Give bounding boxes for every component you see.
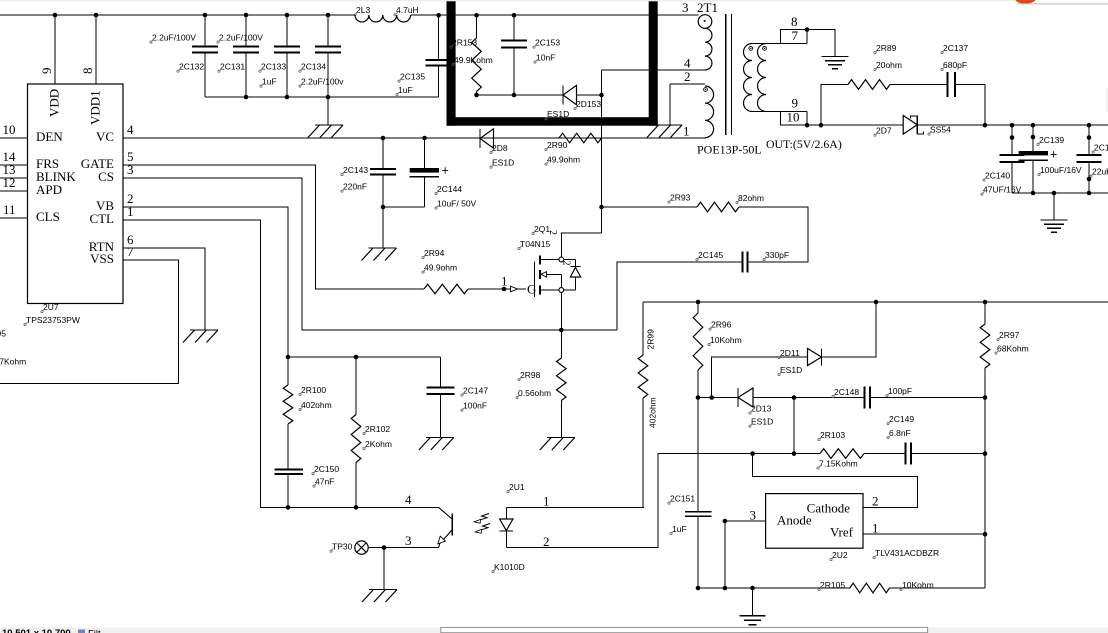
svg-text:2R90: 2R90 (547, 140, 568, 150)
svg-text:20ohm: 20ohm (876, 60, 902, 70)
wire U7 pin 8 VDD1 (95, 15, 97, 84)
svg-text:ES1D: ES1D (780, 365, 802, 375)
svg-text:220nF: 220nF (343, 181, 367, 191)
IC U7 TPS23753PW body (28, 84, 124, 304)
resistor 2R103 7.15Kohm (820, 449, 864, 459)
svg-text:11: 11 (3, 202, 16, 217)
svg-text:10: 10 (787, 110, 800, 125)
optocoupler 2U1 K1010D phototransistor (451, 514, 453, 536)
svg-text:2R100: 2R100 (301, 385, 326, 395)
capacitor 2C135 1uF (438, 15, 440, 60)
svg-text:680pF: 680pF (943, 60, 967, 70)
wire VSS net (0, 260, 179, 384)
transformer 2T1 primary top winding (698, 15, 712, 29)
transformer 2T1 secondary winding B (763, 47, 767, 51)
wire output rail (807, 124, 904, 126)
svg-text:1: 1 (683, 123, 690, 138)
svg-text:2C134: 2C134 (301, 61, 326, 71)
svg-text:1: 1 (872, 521, 879, 536)
wire top VDD rail (0, 14, 355, 16)
wire 2U2 cathode pin 2 (753, 454, 918, 508)
toolbar edge line (1017, 3, 1108, 4)
svg-text:47Kohm: 47Kohm (0, 357, 26, 367)
wire opto pin1 to 2R99 (506, 506, 644, 508)
diode 2D7 SS54 schottky (916, 116, 918, 135)
svg-text:2C147: 2C147 (463, 385, 488, 395)
junction dots CTL rail (286, 505, 291, 510)
svg-text:1uF: 1uF (262, 76, 277, 86)
transformer 2T1 secondary winding A (749, 47, 753, 51)
svg-text:9: 9 (39, 68, 54, 75)
wire U7 pin 9 VDD (54, 15, 56, 84)
svg-text:Vref: Vref (830, 525, 854, 540)
svg-text:2.2uF/100v: 2.2uF/100v (301, 76, 344, 86)
light arrows 2U1 (476, 514, 489, 522)
svg-text:10uF/ 50V: 10uF/ 50V (437, 198, 477, 208)
wire VC / primary return (123, 137, 706, 139)
svg-text:TPS23753PW: TPS23753PW (26, 315, 80, 325)
transistor 2Q1 T04N15 MOSFET (534, 262, 536, 298)
wire 2D11 loop (698, 397, 712, 399)
svg-text:8: 8 (791, 14, 798, 29)
wire transformer pin 4 (602, 69, 706, 71)
svg-text:2L3: 2L3 (356, 5, 370, 15)
svg-text:2C149: 2C149 (889, 414, 914, 424)
wire to secondary ground (807, 30, 835, 57)
resistor 2R153 49.9Kohm (476, 15, 478, 38)
diode 2D13 ES1D (737, 388, 739, 407)
svg-text:POE13P-50L: POE13P-50L (697, 143, 762, 157)
svg-text:10Kohm: 10Kohm (710, 335, 742, 345)
svg-text:2R98: 2R98 (520, 370, 541, 380)
firefox logo bottom blob (1016, 0, 1036, 4)
svg-text:2C148: 2C148 (834, 387, 859, 397)
svg-text:10: 10 (3, 122, 16, 137)
bold highlight box (447, 0, 456, 126)
junction dot 2C148 left (792, 395, 797, 400)
svg-text:10nF: 10nF (536, 52, 555, 62)
svg-text:2R96: 2R96 (711, 319, 732, 329)
svg-text:1uF: 1uF (398, 85, 413, 95)
capacitor 2C133 1uF (286, 15, 288, 47)
svg-text:1: 1 (501, 274, 508, 289)
transformer 2T1 primary bottom winding (704, 88, 708, 92)
inductor 2L3 4.7uH (355, 15, 411, 22)
wire 2R93 to drain node (602, 206, 698, 208)
capacitor 2C143 220nF (382, 138, 384, 169)
wire secondary pins 8 7 (752, 43, 807, 45)
svg-text:100uF/16V: 100uF/16V (1040, 165, 1082, 175)
wire 2D11 to rail (822, 302, 877, 357)
junction dot diode output (983, 123, 988, 128)
browser top edge remnant (0, 0, 1016, 1)
capacitor 2C137 680pF (890, 84, 948, 86)
wire U7 pin 14 FRS (0, 164, 28, 166)
junction dot gate (502, 287, 507, 292)
capacitor 2C150 47nF (275, 468, 304, 470)
svg-text:2C151: 2C151 (670, 493, 695, 503)
svg-text:Cathode: Cathode (807, 501, 851, 516)
svg-text:VDD1: VDD1 (88, 90, 103, 125)
svg-text:402ohm: 402ohm (648, 397, 658, 428)
svg-text:49.9ohm: 49.9ohm (424, 262, 457, 272)
svg-text:68Kohm: 68Kohm (997, 343, 1029, 353)
wire snubber bottom (477, 94, 564, 96)
junction dot vref (983, 532, 988, 537)
capacitor 2C131 2.2uF/100V (245, 15, 247, 47)
wire VB net (123, 207, 440, 357)
wire output cap bottom rail (1012, 192, 1108, 194)
svg-text:7: 7 (127, 244, 134, 259)
svg-text:3: 3 (682, 0, 689, 15)
svg-text:VC: VC (96, 129, 114, 144)
svg-text:VSS: VSS (90, 251, 114, 266)
svg-text:2C141: 2C141 (1094, 142, 1108, 152)
wire feedback rail (643, 301, 1108, 303)
svg-text:402ohm: 402ohm (301, 400, 332, 410)
IC 2U2 TLV431ACDBZR body (766, 494, 863, 549)
svg-text:2D11: 2D11 (780, 348, 800, 358)
svg-text:9: 9 (792, 96, 799, 111)
resistor 2R99 402ohm vertical (642, 302, 644, 355)
wire opto emitter (384, 547, 439, 549)
svg-text:2: 2 (872, 494, 879, 509)
svg-text:12: 12 (3, 175, 16, 190)
chassis ground TP30 (369, 589, 397, 591)
junction dots 2C141 (1087, 123, 1092, 128)
junction dots output rail left (805, 123, 810, 128)
wire 2R103 net (658, 453, 820, 455)
capacitor 2C139 100uF/16V electrolytic (1032, 125, 1034, 151)
earth ground bottom (740, 615, 766, 617)
svg-text:2R89: 2R89 (876, 43, 897, 53)
junction dot pin 8 (805, 27, 810, 32)
svg-text:ES1D: ES1D (751, 416, 773, 426)
svg-text:2R105: 2R105 (820, 580, 845, 590)
junction dots bottom rail (696, 586, 701, 591)
svg-text:2R99: 2R99 (646, 329, 656, 350)
svg-text:2D13: 2D13 (751, 403, 772, 413)
wire input cap bottom rail (205, 96, 439, 98)
svg-text:2C135: 2C135 (400, 71, 425, 81)
svg-text:6.8nF: 6.8nF (889, 428, 911, 438)
capacitor 2C141 22uF/16V (1088, 125, 1090, 155)
wire 2C137 to rail (984, 85, 986, 126)
wire stub output ground (1053, 193, 1055, 220)
svg-text:CS: CS (98, 169, 114, 184)
svg-text:2C153: 2C153 (535, 37, 560, 47)
svg-text:3: 3 (127, 162, 134, 177)
svg-text:2.2uF/100V: 2.2uF/100V (219, 32, 263, 42)
svg-text:2: 2 (547, 230, 558, 235)
svg-text:3: 3 (405, 533, 412, 548)
chassis ground VC caps (369, 247, 397, 249)
junction dot 2C149 right (983, 451, 988, 456)
svg-text:Filt: Filt (88, 629, 101, 633)
earth ground output (1041, 219, 1068, 221)
wire 2C145 to 2R93 (739, 207, 808, 262)
svg-text:95: 95 (0, 329, 6, 339)
svg-text:1uF: 1uF (672, 524, 687, 534)
junction dot 2C148 right (983, 395, 988, 400)
svg-text:2: 2 (543, 534, 550, 549)
svg-text:APD: APD (36, 182, 62, 197)
resistor 2R97 68Kohm (984, 302, 986, 324)
junction dots 2C140 (1010, 123, 1015, 128)
chassis ground RTN (190, 329, 218, 331)
capacitor 2C145 330pF (741, 261, 743, 263)
junction dots snubber (474, 93, 479, 98)
svg-text:7: 7 (792, 28, 799, 43)
junction dots 2R103 net (750, 451, 755, 456)
wire RTN net (123, 248, 205, 330)
svg-text:SS54: SS54 (930, 124, 951, 134)
right edge scrollbar sliver (1106, 88, 1108, 112)
svg-text:2C131: 2C131 (220, 61, 245, 71)
wire U7 pin 12 APD (0, 190, 28, 192)
svg-text:OUT:(5V/2.6A): OUT:(5V/2.6A) (766, 137, 842, 151)
wire opto pin2 to lower net (506, 454, 820, 548)
svg-text:K1010D: K1010D (494, 562, 525, 572)
svg-text:2R97: 2R97 (999, 330, 1020, 340)
svg-text:2R153: 2R153 (452, 37, 477, 47)
svg-text:+: + (442, 164, 449, 178)
capacitor 2C147 100nF (439, 357, 441, 388)
resistor 2R93 82ohm (697, 202, 739, 212)
capacitor 2C151 1uF (697, 398, 699, 512)
svg-text:2C140: 2C140 (985, 170, 1010, 180)
wire 2D13 wires (712, 397, 738, 399)
capacitor 2C148 100pF (794, 397, 865, 399)
svg-text:2T1: 2T1 (697, 0, 718, 15)
resistor 2R100 402ohm (287, 357, 289, 385)
svg-text:2: 2 (684, 69, 691, 84)
wire stub to chassis ground (327, 97, 329, 125)
svg-text:CLS: CLS (36, 209, 60, 224)
wire 2D13 to 2R103 net (793, 398, 795, 454)
svg-text:VDD: VDD (47, 89, 62, 117)
svg-text:2C145: 2C145 (698, 250, 723, 260)
capacitor 2C132 2.2uF/100V (204, 15, 206, 47)
wire aux vertical node (601, 70, 603, 233)
diode 2D8 ES1D (479, 129, 481, 148)
junction dots VB divider top (286, 355, 291, 360)
wire secondary pins 9 10 (752, 111, 807, 113)
svg-text:49.9ohm: 49.9ohm (547, 154, 580, 164)
svg-text:49.9Kohm: 49.9Kohm (454, 55, 493, 65)
svg-text:2: 2 (561, 261, 572, 266)
wire source down (560, 292, 562, 330)
resistor 2R90 49.9ohm (559, 133, 601, 143)
resistor 2R94 49.9ohm (424, 284, 468, 294)
svg-text:ES1D: ES1D (492, 157, 514, 167)
capacitor 2C149 6.8nF (864, 453, 906, 455)
junction dots 2R96 bottom (696, 395, 701, 400)
svg-text:8: 8 (80, 68, 95, 75)
chassis ground 2R98 (547, 437, 575, 439)
svg-text:2C139: 2C139 (1039, 135, 1064, 145)
svg-text:100pF: 100pF (888, 386, 912, 396)
diode 2D153 ES1D (562, 85, 564, 104)
wire U7 pin 10 DEN (0, 137, 28, 139)
svg-text:2D8: 2D8 (492, 143, 508, 153)
earth ground secondary top (822, 56, 849, 58)
svg-text:4: 4 (127, 122, 134, 137)
svg-text:10.501 x 10.700: 10.501 x 10.700 (2, 628, 71, 633)
svg-text:T04N15: T04N15 (520, 239, 551, 249)
chassis ground 2C147 (426, 437, 454, 439)
svg-text:3: 3 (750, 508, 757, 523)
chassis ground primary pin2 (654, 124, 682, 126)
svg-text:2C132: 2C132 (179, 61, 204, 71)
junction dot drain node (599, 205, 604, 210)
resistor 2R102 2Kohm (355, 357, 357, 415)
optocoupler 2U1 LED (505, 507, 507, 519)
svg-text:7.15Kohm: 7.15Kohm (819, 458, 858, 468)
svg-text:4: 4 (405, 492, 412, 507)
svg-text:100nF: 100nF (463, 400, 487, 410)
svg-text:2R102: 2R102 (365, 424, 390, 434)
junction dots output bottom rail (1031, 191, 1036, 196)
capacitor 2C153 10nF (513, 15, 515, 40)
pin circles 2Q1 (559, 257, 564, 262)
svg-text:ES1D: ES1D (547, 109, 569, 119)
svg-text:2C143: 2C143 (343, 165, 368, 175)
wire U7 pin 13 BLINK (0, 177, 28, 179)
svg-text:2R94: 2R94 (424, 248, 445, 258)
wire 2U2 anode pin 3 (725, 520, 766, 522)
svg-text:DEN: DEN (36, 129, 63, 144)
junction dot TP30 (382, 545, 387, 550)
body diode 2Q1 (564, 259, 576, 261)
transformer 2T1 core (725, 14, 727, 135)
svg-text:CTL: CTL (89, 211, 114, 226)
wire TP30 ground (383, 548, 385, 590)
svg-text:0.56ohm: 0.56ohm (518, 388, 551, 398)
wire transformer pin 2 (670, 83, 705, 85)
input arrow gate (511, 286, 518, 292)
svg-text:2C144: 2C144 (437, 184, 462, 194)
wire GATE net (123, 165, 424, 289)
wire 2R94 to gate (468, 288, 526, 290)
svg-text:4.7uH: 4.7uH (396, 5, 419, 15)
svg-text:2R93: 2R93 (670, 192, 691, 202)
wire 2C143 2C144 bottom (383, 206, 425, 208)
svg-text:+: + (1050, 148, 1057, 162)
svg-text:2U2: 2U2 (832, 550, 848, 560)
resistor 2R105 10Kohm (850, 583, 890, 593)
wire stub to ground VC caps (382, 207, 384, 248)
junction dot CS at 2R98 (559, 328, 564, 333)
junction dots cap bottom rail (244, 95, 249, 100)
svg-text:TP30: TP30 (332, 541, 353, 551)
svg-text:47nF: 47nF (315, 476, 334, 486)
svg-text:2C133: 2C133 (261, 61, 286, 71)
chassis ground input caps (315, 124, 343, 126)
wire stub bottom ground (752, 588, 754, 616)
status bar (0, 627, 1108, 633)
junction dot VC cap bottom (381, 205, 386, 210)
junction dots VDD rail (53, 13, 58, 18)
svg-text:2C150: 2C150 (314, 464, 339, 474)
svg-text:2Kohm: 2Kohm (365, 439, 392, 449)
wire CTL net (123, 220, 439, 507)
svg-text:82ohm: 82ohm (738, 193, 764, 203)
svg-text:2R103: 2R103 (820, 430, 845, 440)
diode 2D11 ES1D (821, 349, 823, 366)
junction dots VC rail (381, 136, 386, 141)
svg-text:2C137: 2C137 (943, 43, 968, 53)
svg-text:1: 1 (127, 204, 134, 219)
testpoint TP30 (355, 541, 368, 554)
svg-text:TLV431ACDBZR: TLV431ACDBZR (875, 548, 939, 558)
svg-text:Anode: Anode (777, 513, 812, 528)
svg-text:10Kohm: 10Kohm (902, 580, 934, 590)
svg-text:2D7: 2D7 (876, 125, 892, 135)
svg-text:2U7: 2U7 (43, 302, 59, 312)
svg-text:2D153: 2D153 (576, 99, 601, 109)
resistor 2R89 20ohm (848, 80, 890, 90)
capacitor 2C134 2.2uF/100v (327, 15, 329, 47)
svg-text:22uF/16V: 22uF/16V (1092, 166, 1108, 176)
wire bottom feedback rail (698, 587, 850, 589)
resistor 2R98 0.56ohm (560, 330, 562, 358)
wire CS sense net (123, 178, 561, 330)
svg-text:2.2uF/100V: 2.2uF/100V (152, 32, 196, 42)
wire drain up (561, 233, 601, 257)
svg-text:1: 1 (543, 494, 550, 509)
capacitor 2C140 47UF/16V (1011, 125, 1013, 155)
wire 2U2 vref pin 1 (863, 533, 985, 535)
wire snubber RC loop (821, 85, 848, 126)
junction dots feedback rail (696, 300, 701, 305)
svg-text:2U1: 2U1 (509, 482, 525, 492)
capacitor 2C144 10uF/50V electrolytic (424, 138, 426, 168)
wire U7 pin 11 CLS (0, 217, 28, 219)
resistor 2R96 10Kohm (697, 302, 699, 313)
svg-text:330pF: 330pF (765, 250, 789, 260)
junction dots 2C139 (1031, 123, 1036, 128)
